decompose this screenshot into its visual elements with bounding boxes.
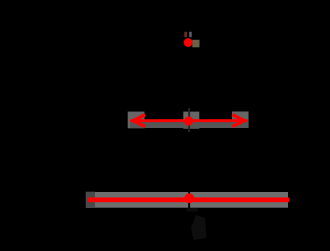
wire W2: dark end cap bbox=[86, 192, 95, 208]
node P top: label patch bbox=[192, 40, 199, 48]
node P top: halo fragment left bbox=[184, 32, 187, 37]
wire I1: left arrowhead handle square bbox=[128, 112, 145, 129]
cursor silhouette bbox=[187, 208, 198, 212]
vertical line (black) crossing middle bbox=[188, 108, 190, 132]
vertical line (black) crossing bottom bbox=[188, 190, 190, 210]
node M: center handle square bbox=[183, 112, 199, 129]
node P top: halo fragment right bbox=[189, 32, 192, 37]
node B: red point bbox=[184, 193, 194, 203]
node P: red point bbox=[184, 38, 193, 47]
wire I1: red shaft bbox=[131, 119, 248, 122]
wire W2: gray halo band bbox=[95, 192, 288, 208]
node M: red point bbox=[184, 116, 193, 125]
wire I1: gray halo band bbox=[130, 122, 248, 128]
wire W2: red line bbox=[88, 197, 290, 202]
wire I1: right arrowhead handle square bbox=[232, 112, 249, 129]
wire I1: left arrowhead bbox=[130, 113, 146, 128]
wire I1: right arrowhead bbox=[232, 113, 248, 128]
